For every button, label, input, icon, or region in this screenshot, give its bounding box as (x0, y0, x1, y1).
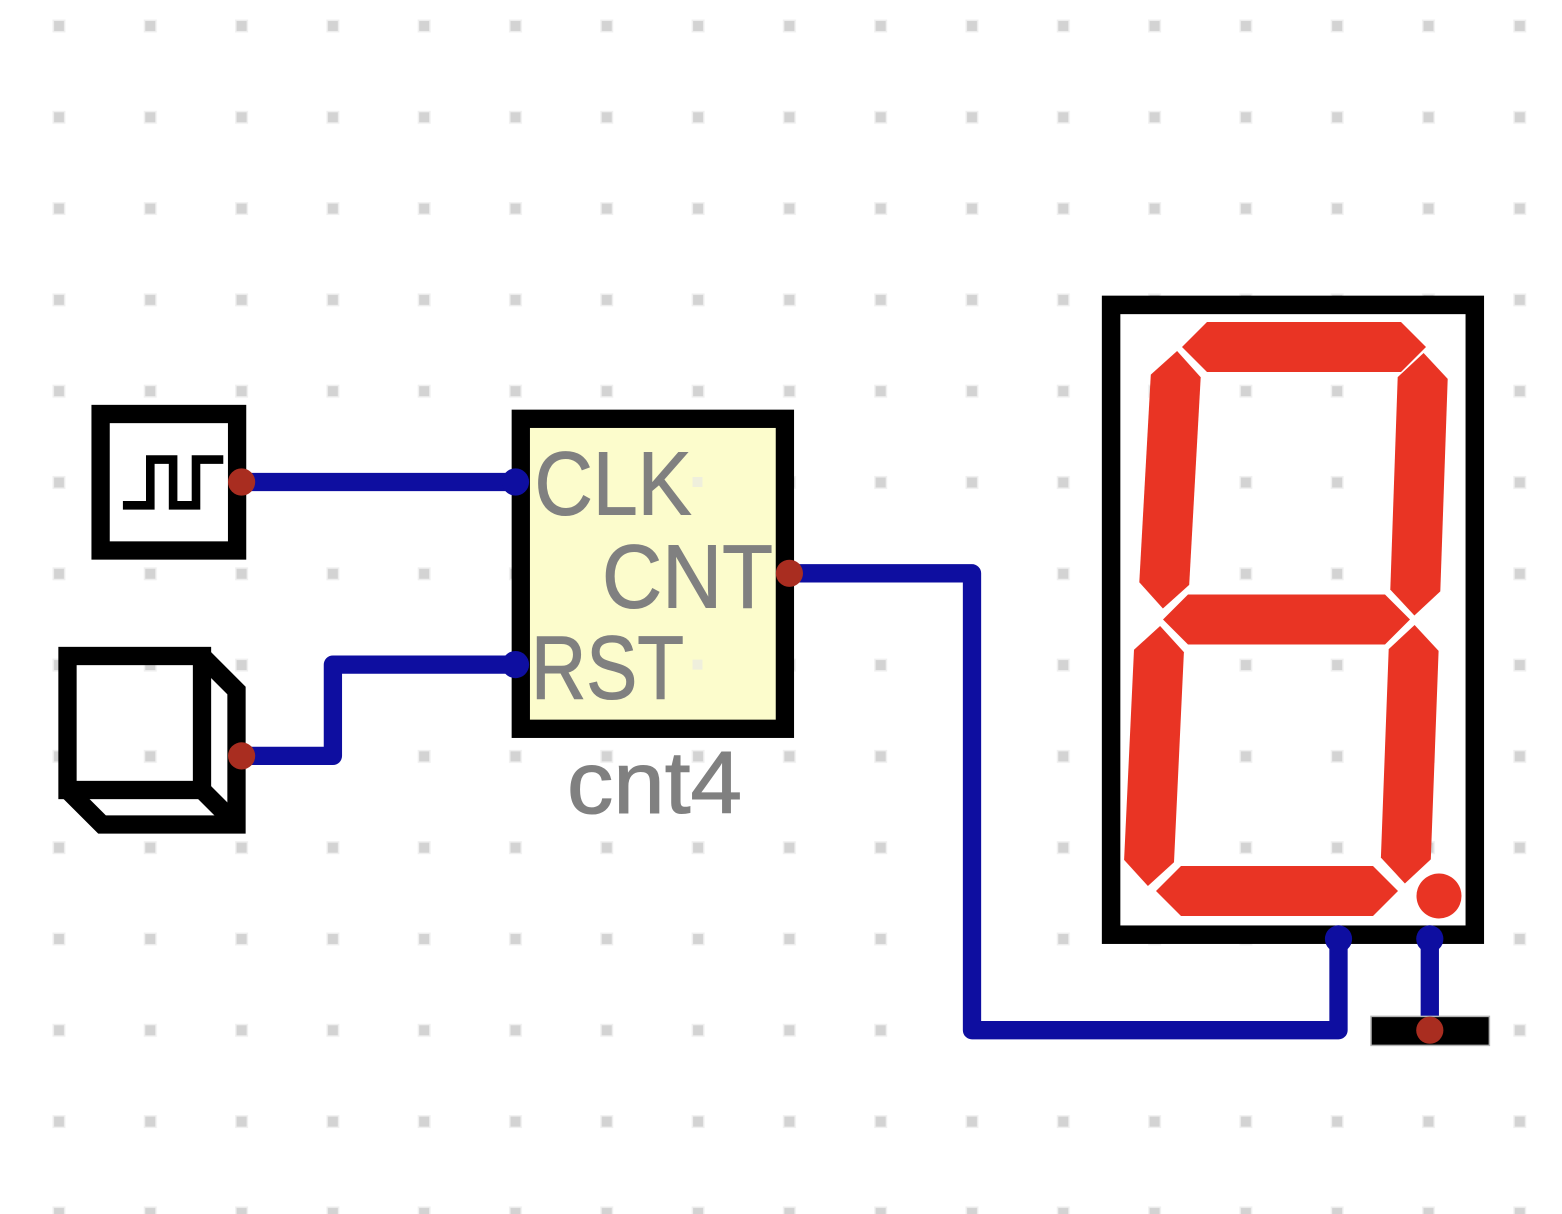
pin dot: button output (228, 742, 255, 769)
svg-text:CNT: CNT (602, 527, 773, 627)
segment b (1390, 353, 1447, 616)
pin dot: counter RST input (502, 651, 529, 678)
segment c (1381, 625, 1439, 884)
wire: clock output to counter CLK input (242, 473, 516, 491)
counter cnt4 (521, 419, 785, 729)
svg-text:CLK: CLK (535, 435, 692, 535)
segment a (1182, 322, 1426, 372)
segment d (1156, 866, 1398, 916)
clock source (101, 414, 238, 551)
pin dot: clock output (228, 468, 255, 495)
ground symbol (1371, 1016, 1489, 1045)
grid dot showing through component fill (693, 477, 703, 487)
pin dot: ground node (1416, 1017, 1443, 1044)
wire: button output to counter RST input (242, 665, 516, 756)
svg-text:cnt4: cnt4 (567, 733, 742, 832)
grid dot showing through component fill (693, 660, 703, 670)
svg-text:RST: RST (531, 618, 684, 718)
pin dot: counter CLK input (502, 468, 529, 495)
segment e (1124, 626, 1184, 886)
decimal point (1417, 874, 1462, 919)
pin dot: counter CNT output (776, 560, 803, 587)
segment g (1163, 595, 1410, 645)
segment f (1139, 351, 1200, 609)
push button (68, 656, 237, 825)
pin dot: display left input (1325, 925, 1352, 952)
seven-segment display (1111, 305, 1475, 935)
pin dot: display right input (1416, 925, 1443, 952)
wire: display cathode to ground (1421, 939, 1439, 1030)
wire: counter CNT output to display input (789, 573, 1338, 1030)
